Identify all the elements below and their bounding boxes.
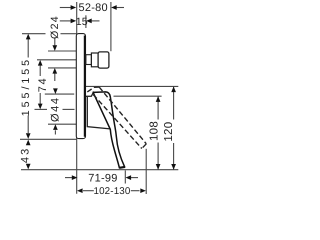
- plate top extension line: [22, 33, 46, 35]
- wire: [20, 2, 178, 194]
- dim line Ø24 upper stem: [54, 38, 56, 46]
- arrow 15 left (pointing right): [71, 19, 77, 24]
- dim line 155/155 lower stem: [27, 116, 29, 134]
- dashed blade upper edge: [99, 87, 146, 144]
- svg-text:102-130: 102-130: [93, 186, 130, 197]
- dim line 108 lower stem: [157, 143, 159, 170]
- arrow 74 top (up): [38, 60, 43, 66]
- dim line 120 upper stem: [173, 87, 175, 120]
- dim line 74 lower stem: [39, 93, 41, 104]
- svg-text:15: 15: [76, 16, 88, 28]
- hub bottom extension line (Ø44): [48, 123, 76, 125]
- escutcheon plate (side view): [76, 34, 85, 139]
- lever tip vertical extension: [124, 170, 126, 183]
- arrow 43 top (up): [26, 140, 31, 146]
- dim line 74 upper stem: [39, 65, 41, 76]
- 71-99 right tail: [131, 177, 138, 179]
- lever raised position (dashed): [87, 87, 146, 148]
- arrow 155/155 top (up): [26, 34, 31, 40]
- 71-99 left leader: [65, 177, 72, 179]
- svg-text:74: 74: [37, 77, 49, 92]
- shut-off knob: neck: [86, 55, 92, 65]
- arrow 120 top (up): [171, 87, 176, 93]
- arrow 74 bottom (down): [38, 104, 43, 110]
- svg-text:108: 108: [149, 121, 161, 141]
- arrow 120 bottom (down): [171, 164, 176, 170]
- plate bottom extension line: [20, 138, 77, 140]
- dim line 108 upper stem: [157, 96, 159, 119]
- arrow 52-80 left (outside, pointing right): [71, 5, 77, 10]
- svg-text:71-99: 71-99: [88, 173, 117, 185]
- 52-80 left leader: [60, 7, 71, 9]
- lever blade tip cap: [119, 166, 125, 169]
- svg-text:Ø44: Ø44: [49, 96, 61, 122]
- shut-off knob: ring: [91, 53, 98, 67]
- 102-130 right segment: [131, 190, 140, 192]
- arrow 155/155 bottom (down): [26, 133, 31, 139]
- svg-text:155/155: 155/155: [20, 57, 32, 116]
- knob top extension line: [48, 50, 76, 52]
- svg-text:43: 43: [20, 146, 32, 163]
- dashed hub top edge: [87, 87, 99, 92]
- dashed blade tip cap: [142, 144, 147, 149]
- arrow 15 right (pointing left): [86, 19, 92, 24]
- arrow 71-99 right (outside, pointing left): [126, 175, 132, 180]
- lever blade (solid, lowered position): [93, 92, 124, 168]
- plate thick front edge: [84, 36, 86, 137]
- arrow Ø24 bottom (up, outside): [52, 68, 57, 74]
- dim line Ø44 lower stem: [54, 130, 56, 134]
- 15 right extension line: [85, 15, 87, 28]
- arrow Ø44 top (down, outside): [53, 88, 58, 94]
- knob centerline: [37, 59, 81, 61]
- hub axis tick: [35, 108, 48, 110]
- svg-text:52-80: 52-80: [79, 2, 108, 14]
- bottom extension line (lever tip level): [21, 169, 178, 171]
- 15 left leader: [60, 20, 71, 22]
- dim line 120 lower stem: [173, 143, 175, 170]
- dimension texts: [76, 2, 131, 197]
- knob bottom extension line: [48, 67, 76, 69]
- svg-text:Ø24: Ø24: [49, 15, 61, 39]
- 52-80 right tail: [117, 7, 125, 9]
- 52-80 right extension line: [110, 2, 112, 51]
- arrow Ø44 bottom (up, outside): [53, 124, 58, 130]
- 15 right tail: [91, 20, 100, 22]
- arrow 52-80 right (outside, pointing left): [111, 5, 117, 10]
- 102-130 left segment: [83, 190, 94, 192]
- arrow 108 bottom (down): [156, 164, 161, 170]
- plate top extension line (right of label): [61, 33, 77, 35]
- dim line Ø24 lower stem: [54, 73, 56, 81]
- dashed blade lower edge: [93, 95, 142, 149]
- hub top extension line (Ø44): [45, 93, 74, 95]
- hub axis tick (right of label): [63, 108, 75, 110]
- arrow 43 bottom (down): [26, 164, 31, 170]
- svg-text:120: 120: [163, 122, 175, 142]
- arrow 108 top (up): [156, 96, 161, 102]
- arrowheads: [26, 5, 176, 193]
- arrow 102-130 left (inside, pointing left): [77, 188, 83, 193]
- raised lever top extension line (120): [86, 85, 178, 87]
- arrow 71-99 left (outside, pointing right): [72, 175, 78, 180]
- hub top edge extension line (108): [114, 95, 162, 97]
- arrow 102-130 right (inside, pointing right): [140, 188, 146, 193]
- shut-off knob: cap (Ø24): [98, 52, 109, 68]
- lever hub (Ø44 base): [86, 93, 111, 129]
- dim line 155/155 upper stem: [27, 39, 29, 58]
- wall extension line: [76, 2, 78, 194]
- arrow Ø24 top (down, outside): [52, 45, 57, 51]
- raised lever reach vertical extension: [145, 149, 147, 194]
